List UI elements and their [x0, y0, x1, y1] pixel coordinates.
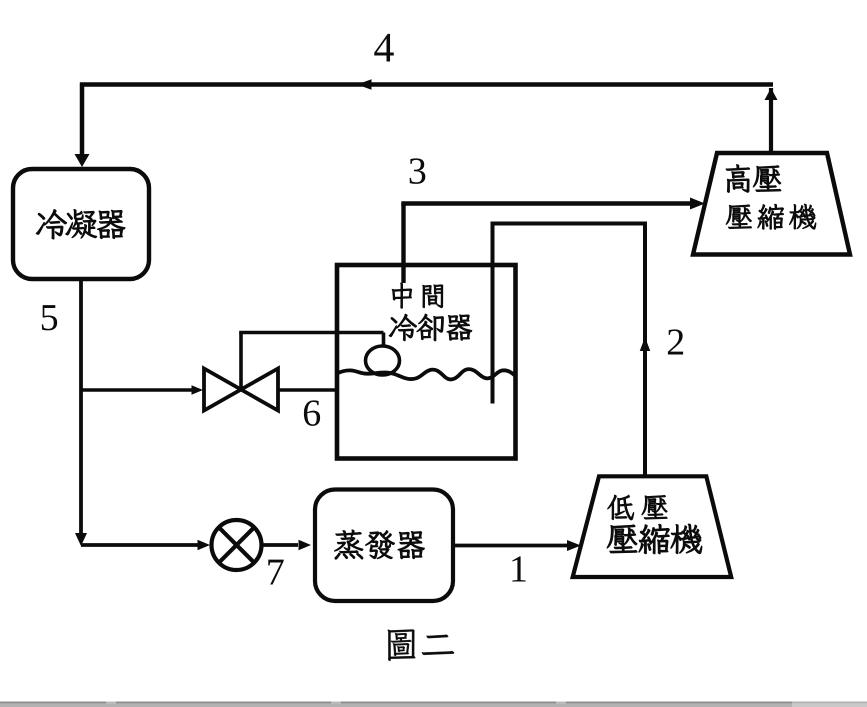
pipe 3 horizontal to HP compressor	[401, 201, 691, 205]
evaporator label 蒸發器	[334, 530, 424, 560]
LP compressor label line1 低壓	[608, 495, 668, 520]
intercooler box	[337, 265, 516, 459]
HP compressor label line2 壓縮機	[726, 204, 816, 229]
node label 2	[668, 329, 683, 354]
wire from HP compressor top up to wire 4	[769, 88, 773, 153]
arrow on wire 4 pointing left	[357, 79, 372, 90]
wire 4 top horizontal	[80, 82, 773, 87]
pipe down to float	[382, 333, 386, 349]
water surface wavy line	[337, 369, 516, 379]
circle-X expansion device	[212, 520, 262, 570]
pipe from valve up	[239, 333, 243, 391]
HP compressor trapezoid	[693, 153, 850, 255]
arrow up at top of HP discharge wire	[765, 88, 778, 100]
evaporator box	[315, 490, 453, 602]
node label 7	[268, 560, 283, 585]
node label 6	[304, 400, 320, 426]
pipe 2 vertical from LP compressor top	[643, 222, 647, 477]
pipe 2 down into intercooler liquid	[491, 222, 495, 404]
pipe 6 from valve into intercooler	[278, 388, 337, 392]
wire 1 evaporator to LP compressor	[453, 544, 568, 548]
X diagonal 1	[219, 527, 255, 563]
arrow into condenser top	[75, 154, 90, 167]
expansion valve bowtie left triangle	[204, 369, 241, 411]
X diagonal 2	[219, 527, 255, 563]
pipe 2 horizontal over to intercooler	[491, 222, 648, 226]
condenser box	[13, 169, 149, 279]
condenser label 冷凝器	[36, 209, 125, 239]
bottom bar tick marks	[106, 702, 116, 704]
arrow into LP compressor	[567, 540, 581, 551]
node label 3	[410, 158, 426, 184]
wire bottom horizontal into expansion device	[81, 543, 199, 547]
arrow into evaporator	[299, 540, 312, 551]
bottom gray bar	[0, 704, 792, 707]
wire 4 left drop into condenser	[80, 83, 85, 156]
wire branch to expansion valve	[81, 388, 192, 392]
float ellipse in intercooler	[366, 346, 400, 375]
arrow into circle-X expansion device	[198, 540, 211, 551]
pipe over to float	[239, 331, 383, 335]
pipe 3 vertical from intercooler vapor space	[401, 204, 405, 284]
node label 1	[512, 556, 525, 581]
arrow up on pipe 2	[640, 337, 651, 351]
arrow into HP compressor	[690, 198, 705, 210]
wire from circle-X to evaporator	[261, 543, 298, 547]
wire 5 vertical from condenser	[79, 279, 83, 534]
node label 4	[374, 34, 394, 62]
arrow down on wire 5 at bottom corner	[75, 533, 87, 546]
arrow into expansion valve	[192, 385, 204, 395]
bottom gray bar top border	[0, 702, 792, 704]
HP compressor label line1 高壓	[726, 164, 781, 192]
intercooler label line2 冷卻器	[389, 314, 472, 341]
caption 圖二	[388, 630, 454, 661]
intercooler label line1 中間	[392, 283, 443, 308]
LP compressor trapezoid	[573, 476, 732, 577]
LP compressor label line2 壓縮機	[607, 524, 702, 554]
node label 5	[42, 305, 57, 330]
expansion valve bowtie right triangle	[241, 369, 278, 411]
